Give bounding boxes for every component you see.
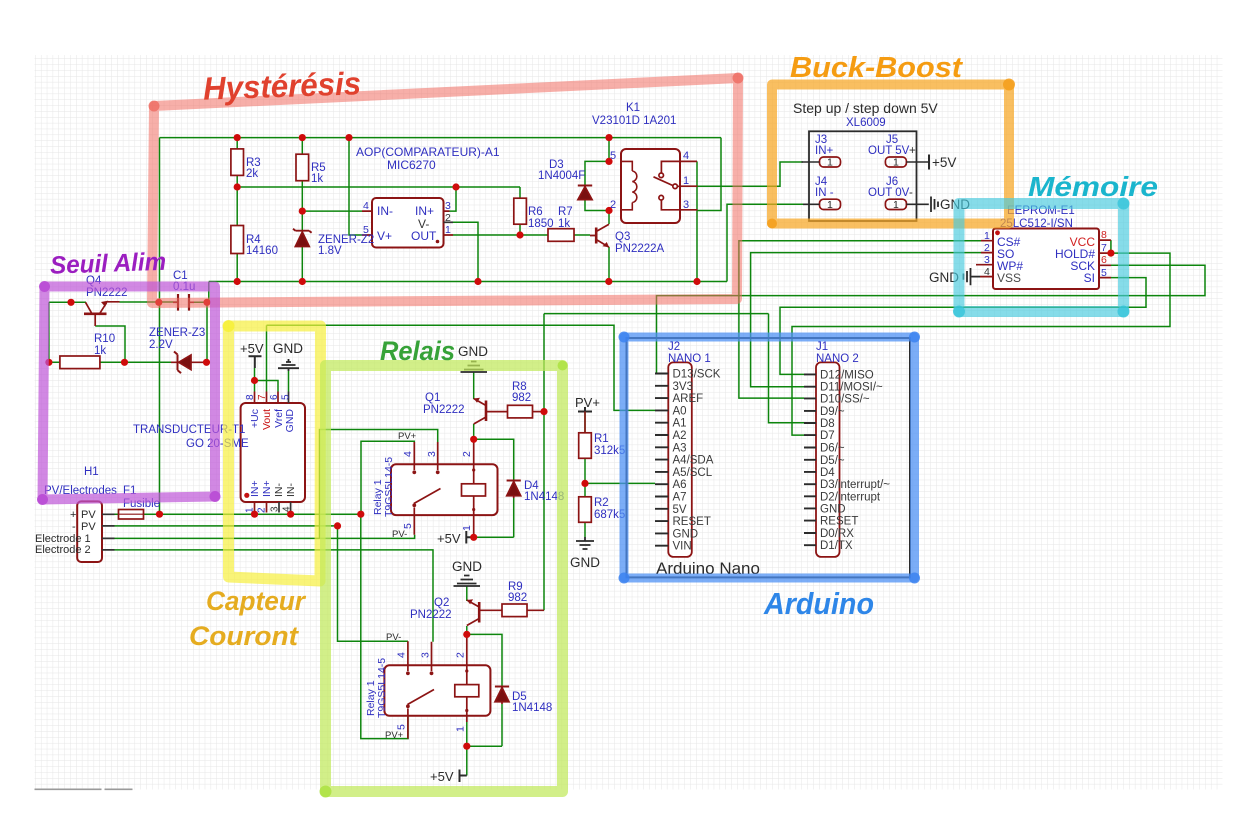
wire: AOP pin3 IN+ up to feedback rail: [450, 187, 457, 211]
svg-text:1: 1: [445, 224, 451, 236]
svg-text:4: 4: [402, 451, 414, 457]
svg-text:1.8V: 1.8V: [318, 245, 342, 257]
label J3: [815, 134, 834, 157]
label eeprom pin numbers: [984, 229, 1107, 279]
node seuil Q4 base: [67, 299, 74, 306]
label J2 NANO 1: [668, 341, 711, 365]
fuse F1: [119, 510, 144, 520]
wire: D8 drop to nano2: [769, 314, 805, 423]
label relay RL1 pin numbers: [402, 451, 473, 531]
wire: SCK line to D13: [655, 265, 1205, 373]
svg-text:+5V: +5V: [240, 341, 264, 356]
node Q2 collector: [463, 631, 470, 638]
svg-text:D3/interrupt/~: D3/interrupt/~: [820, 479, 890, 491]
svg-text:2.2V: 2.2V: [149, 339, 173, 351]
resistor R5: [296, 154, 309, 181]
node bottom rail Z2: [299, 278, 306, 285]
svg-text:R6: R6: [528, 206, 543, 218]
wire: hysteresis top rail: [160, 137, 722, 139]
current sensor U2 box: [241, 392, 305, 515]
label nano2 pin names: [820, 369, 890, 552]
label AOP comparator: [356, 145, 500, 172]
resistor R8: [508, 405, 545, 418]
diode D3: [578, 186, 592, 200]
svg-text:2: 2: [984, 242, 990, 254]
wire: seuil top wire right of C1: [190, 301, 207, 303]
svg-text:OUT 0V: OUT 0V: [868, 187, 910, 199]
svg-text:NANO 1: NANO 1: [668, 353, 711, 365]
svg-text:Q3: Q3: [615, 231, 630, 243]
svg-text:IN+: IN+: [415, 204, 434, 218]
svg-text:V-: V-: [418, 217, 429, 231]
node R8 right: [540, 408, 547, 415]
svg-text:5: 5: [1101, 267, 1107, 279]
node bottom rail K1 pin4: [693, 278, 700, 285]
label J1 NANO 2: [816, 341, 859, 365]
power symbol +5V relay1: [466, 531, 473, 544]
wire: D4 anode down: [513, 498, 515, 537]
svg-text:Hystérésis: Hystérésis: [202, 65, 361, 106]
svg-text:4: 4: [396, 652, 408, 658]
svg-text:D10/SS/~: D10/SS/~: [820, 393, 870, 405]
label +5V capteur: [240, 341, 264, 356]
label GND below R2: [570, 555, 600, 570]
svg-text:A7: A7: [673, 492, 687, 504]
zener diode Z2: [293, 229, 312, 247]
annotation highlight box arduino: [624, 337, 915, 578]
label R9: [508, 581, 527, 604]
svg-text:7: 7: [257, 394, 268, 400]
svg-text:A0: A0: [673, 405, 687, 417]
svg-text:ZENER-Z3: ZENER-Z3: [149, 327, 205, 339]
svg-text:1: 1: [893, 157, 899, 169]
wire: zener Z3 to C1 column node: [190, 361, 207, 363]
svg-text:+5V: +5V: [437, 531, 461, 546]
wire: D8 net horizontal: [544, 313, 769, 315]
svg-text:3: 3: [683, 199, 689, 211]
power symbol +5V at J5: [928, 155, 930, 170]
label J4: [815, 176, 834, 199]
svg-text:Capteur: Capteur: [206, 586, 306, 616]
node top rail K1: [605, 134, 612, 141]
label Q4: [86, 275, 128, 299]
svg-text:2: 2: [461, 451, 473, 457]
svg-text:4: 4: [683, 150, 689, 162]
wire: D5 anode down: [501, 704, 503, 746]
svg-text:6: 6: [269, 394, 280, 400]
label R2: [594, 497, 625, 521]
relay RL2: [384, 634, 490, 738]
node feedback R3: [234, 183, 241, 190]
wire: R10 zener row: [49, 361, 171, 363]
svg-text:A1: A1: [673, 418, 687, 430]
power symbol PV+ at R1: [578, 407, 592, 412]
node feedback pin3: [452, 183, 459, 190]
svg-text:2k: 2k: [246, 168, 258, 180]
svg-text:RESET: RESET: [820, 516, 858, 528]
svg-text:IN+: IN+: [261, 480, 273, 497]
svg-text:J2: J2: [668, 341, 680, 353]
node top rail R3: [234, 134, 241, 141]
wire: K1 pin4 drop to bottom rail: [696, 161, 698, 281]
svg-text:XL6009: XL6009: [846, 117, 886, 129]
svg-text:D4: D4: [820, 467, 835, 479]
svg-text:PV-: PV-: [392, 529, 407, 540]
node bottom rail R4: [234, 278, 241, 285]
label capteur pins: [249, 409, 297, 497]
label J5: [868, 134, 916, 157]
node PV+ branch: [357, 511, 364, 518]
svg-text:1: 1: [984, 230, 990, 242]
svg-text:A6: A6: [673, 479, 687, 491]
wire: AOP pin2 V- down to bottom rail: [453, 222, 478, 281]
label R10: [94, 333, 115, 357]
node seuil trunk crossing: [155, 299, 162, 306]
power symbol PV+ at R1 stem: [584, 412, 586, 433]
svg-text:+Uc: +Uc: [249, 409, 261, 428]
capacitor C1: [173, 294, 194, 311]
annotation highlight box relais: [326, 366, 563, 792]
svg-text:GND: GND: [284, 409, 296, 433]
svg-text:5: 5: [363, 224, 369, 236]
node seuil C1 right: [203, 299, 210, 306]
ground symbol GND above Q1: [461, 362, 488, 373]
label AOP pin V-: [418, 217, 429, 231]
svg-text:D7: D7: [820, 430, 835, 442]
connector J4 pin box: [820, 199, 841, 209]
wire: electrode1 line to relay1 pin5: [115, 535, 415, 539]
label J6: [868, 176, 913, 199]
label PV+ at R1: [575, 395, 600, 410]
wire: seuil top wire left of C1: [49, 301, 177, 303]
svg-text:SI: SI: [1084, 271, 1095, 285]
svg-text:Step up / step down 5V: Step up / step down 5V: [793, 100, 938, 116]
node capteur pin4: [287, 511, 294, 518]
svg-text:Vout: Vout: [261, 409, 273, 430]
svg-text:1: 1: [827, 199, 833, 211]
annotation corner dots: [149, 73, 744, 112]
resistor R3: [231, 149, 244, 176]
svg-text:D8: D8: [820, 418, 835, 430]
transistor Q1: [474, 398, 508, 424]
wire: Vout riser: [266, 325, 268, 391]
svg-text:A4/SDA: A4/SDA: [673, 455, 714, 467]
svg-text:PV+: PV+: [575, 395, 600, 410]
svg-text:A2: A2: [673, 430, 687, 442]
label C1: [173, 270, 195, 293]
label relay RL2: [365, 658, 388, 718]
svg-text:GND: GND: [673, 528, 699, 540]
transistor Q4: [84, 301, 120, 326]
svg-text:1: 1: [893, 199, 899, 211]
node IN- R5: [299, 208, 306, 215]
label Q2: [410, 597, 452, 621]
svg-text:IN-: IN-: [377, 204, 393, 218]
wire: A6 sense wire: [585, 482, 655, 484]
label H1 pins: [35, 509, 96, 556]
label H1: [44, 466, 117, 497]
svg-text:2: 2: [445, 212, 451, 224]
ground symbol GND below R2: [576, 537, 594, 549]
label relay RL2 pin numbers: [396, 652, 467, 732]
wire: Vout to Arduino A0: [267, 325, 656, 410]
svg-text:982: 982: [508, 592, 527, 604]
svg-text:5: 5: [281, 394, 292, 400]
annotation highlight box seuil alim: [43, 287, 216, 500]
svg-text:1: 1: [827, 157, 833, 169]
resistor R7: [548, 229, 574, 242]
wire: relay2 +5V rail: [467, 745, 502, 747]
diode D4: [507, 481, 521, 499]
label R4 value: [246, 234, 278, 257]
diode D5: [495, 687, 509, 705]
svg-text:+: +: [70, 509, 76, 521]
svg-text:R7: R7: [558, 206, 573, 218]
buck-boost pin leads: [801, 162, 928, 204]
annotation highlight box capteur: [229, 326, 321, 581]
svg-text:D0/RX: D0/RX: [820, 528, 854, 540]
wire: D3 bottom link to K1 pin2: [585, 200, 609, 211]
svg-text:1k: 1k: [94, 345, 106, 357]
label GND capteur: [273, 341, 303, 356]
node OUT R6: [516, 231, 523, 238]
label K1: [592, 102, 676, 127]
svg-text:PN2222: PN2222: [423, 404, 465, 416]
label R8: [512, 381, 531, 404]
node zener Z3 right: [203, 359, 210, 366]
power symbol +5V capteur: [249, 356, 262, 368]
svg-text:GND: GND: [820, 503, 846, 515]
nano2 pin stubs: [804, 374, 816, 545]
label +5V buck: [932, 155, 956, 170]
label GND above Q2: [452, 559, 482, 574]
svg-text:AOP(COMPARATEUR)-A1: AOP(COMPARATEUR)-A1: [356, 145, 500, 159]
wire: R6 column: [519, 187, 521, 235]
transistor Q3: [590, 224, 609, 247]
label capteur pin numbers: [245, 394, 293, 513]
wire: seuil left vertical: [48, 302, 50, 362]
wire: Q3 collector to node: [608, 211, 610, 225]
label K1 pin numbers: [610, 150, 689, 211]
svg-text:D11/MOSI/~: D11/MOSI/~: [820, 382, 883, 394]
label +5V relay1: [437, 531, 461, 546]
svg-text:Buck-Boost: Buck-Boost: [790, 52, 963, 84]
resistor R4: [231, 226, 244, 254]
svg-text:H1: H1: [84, 466, 99, 478]
svg-text:T9GS5L14-5: T9GS5L14-5: [383, 457, 395, 517]
svg-text:Q2: Q2: [434, 597, 449, 609]
wire: Q1 collector node column: [473, 424, 475, 442]
svg-text:PN2222: PN2222: [410, 609, 452, 621]
node relay2 +5V: [463, 743, 470, 750]
wire: relay1 pin4 PV+ link: [361, 441, 414, 514]
label AOP pin numbers: [363, 200, 451, 236]
svg-text:V23101D 1A201: V23101D 1A201: [592, 115, 676, 127]
label F1: [123, 485, 160, 510]
svg-text:1: 1: [455, 726, 467, 732]
label R5 value: [311, 162, 326, 185]
svg-text:2: 2: [257, 507, 268, 513]
svg-text:J1: J1: [816, 341, 828, 353]
wire: fuse to PV+ trunk: [115, 513, 160, 515]
label step up title: [793, 100, 938, 116]
connector H1: [77, 501, 114, 562]
svg-text:T9GS5L14-5: T9GS5L14-5: [376, 658, 388, 718]
label Q3: [615, 231, 665, 255]
wire: relay1 coil node to D4: [474, 439, 514, 480]
svg-text:982: 982: [512, 392, 531, 404]
op-amp U1 MIC6270 comparator box: [362, 198, 453, 248]
node top rail V+: [345, 134, 352, 141]
label AOP pins: [377, 204, 437, 243]
svg-text:D12/MISO: D12/MISO: [820, 369, 874, 381]
svg-text:Mémoire: Mémoire: [1028, 171, 1158, 202]
wire: Q4 base route to zener row: [95, 326, 125, 362]
svg-text:A5/SCL: A5/SCL: [673, 467, 713, 479]
wire: capteur GND stem: [288, 371, 290, 392]
wire: D3 top link to K1 pin5: [585, 161, 609, 185]
power symbol +5V relay2: [460, 770, 467, 783]
ground symbol GND capteur: [278, 359, 299, 371]
svg-text:PV: PV: [81, 521, 96, 533]
svg-text:PV+: PV+: [398, 431, 417, 442]
wire: GND2 stem to Q2 emitter: [466, 586, 468, 601]
node fuse output: [156, 511, 163, 518]
svg-text:IN+: IN+: [815, 145, 834, 157]
label nano1 pin names: [673, 369, 721, 553]
label R1: [594, 433, 625, 457]
svg-text:3: 3: [984, 254, 990, 266]
svg-text:1k: 1k: [558, 218, 570, 230]
connector J3 pin box: [820, 157, 841, 167]
node R1 R2 divider: [581, 480, 588, 487]
relay RL1: [391, 442, 498, 537]
wire: SI line to D12: [780, 278, 1146, 375]
scrollbar marks bottom: [35, 788, 133, 790]
label PV+ PV- relay1: [392, 431, 417, 540]
wire: R1 R2 divider column: [584, 412, 586, 538]
svg-text:VIN: VIN: [673, 541, 692, 553]
svg-text:GND: GND: [452, 559, 482, 574]
wire: PV+ line to relays: [160, 513, 361, 515]
label J3-J6 pin ones: [827, 157, 899, 212]
node relay1 +5V: [470, 534, 477, 541]
wire: relay2 coil node to D5: [467, 634, 502, 686]
node capteur +5V: [251, 377, 258, 384]
svg-text:PV+: PV+: [385, 730, 404, 741]
label arduino nano: [656, 559, 760, 578]
svg-text:NANO 2: NANO 2: [816, 353, 859, 365]
svg-text:6: 6: [1101, 254, 1107, 266]
svg-text:7: 7: [1101, 242, 1107, 254]
svg-text:Couront: Couront: [189, 621, 299, 651]
svg-text:GND: GND: [570, 555, 600, 570]
annotation highlight box hysteresis: [152, 78, 738, 303]
svg-text:4: 4: [363, 200, 369, 212]
svg-text:OUT 5V: OUT 5V: [868, 145, 910, 157]
wire: relay1 +5V rail: [474, 536, 514, 538]
svg-text:1k: 1k: [311, 173, 323, 185]
node R10 right: [121, 359, 128, 366]
wire: capteur +5V node: [254, 368, 256, 392]
svg-text:AREF: AREF: [673, 393, 704, 405]
annotation highlight box buck-boost: [772, 85, 1009, 224]
svg-text:D1/TX: D1/TX: [820, 540, 853, 552]
svg-text:VSS: VSS: [997, 271, 1021, 285]
svg-text:PV: PV: [81, 509, 96, 521]
ground symbol at eeprom VSS: [964, 268, 981, 285]
svg-text:Electrode 2: Electrode 2: [35, 544, 91, 556]
svg-text:PN2222A: PN2222A: [615, 243, 665, 255]
node bottom rail V-: [474, 278, 481, 285]
label GND eeprom: [929, 270, 959, 285]
svg-text:GND: GND: [273, 341, 303, 356]
nano1 header J2 box: [668, 362, 692, 557]
wire: PV+ trunk vertical (rail to fuse node): [159, 138, 161, 515]
wire: AOP OUT to R7: [453, 234, 548, 236]
svg-text:-: -: [909, 187, 913, 199]
wire: K1 pin1 to J3 IN+: [698, 162, 804, 186]
svg-text:Relais: Relais: [380, 336, 455, 366]
svg-text:OUT: OUT: [411, 229, 437, 243]
svg-text:2: 2: [455, 652, 467, 658]
wire: GND1 stem to Q1 emitter: [473, 372, 475, 399]
svg-text:D2/interrupt: D2/interrupt: [820, 491, 881, 503]
svg-text:R10: R10: [94, 333, 115, 345]
wire: SO line to D11: [751, 253, 981, 387]
label D5: [512, 691, 552, 714]
svg-text:D9/~: D9/~: [820, 406, 845, 418]
label PV- PV+ relay2: [385, 632, 404, 741]
label zener Z2: [318, 234, 374, 257]
svg-text:3: 3: [426, 451, 438, 457]
svg-text:+5V: +5V: [932, 155, 956, 170]
wire: J4 IN- down to bottom rail: [727, 204, 803, 281]
node bottom rail Q3: [605, 278, 612, 285]
svg-text:MIC6270: MIC6270: [387, 158, 436, 172]
wire: IN- wire R5 to AOP pin4: [302, 210, 362, 212]
annotation highlight box memoire: [959, 204, 1124, 312]
svg-text:PV-: PV-: [386, 632, 401, 643]
wire: relay2 pin1 drop: [466, 716, 468, 746]
svg-text:Q1: Q1: [425, 392, 440, 404]
wire: relay2 +5V stem: [466, 746, 468, 775]
resistor R6: [514, 198, 527, 224]
node capteur pin1: [251, 511, 258, 518]
label relay RL1: [372, 457, 395, 517]
wire: R3/R4 column: [236, 138, 238, 282]
relay K1: [621, 149, 698, 223]
wire: R5/zener Z2 column: [301, 138, 303, 282]
svg-text:K1: K1: [626, 102, 640, 114]
svg-text:D6/~: D6/~: [820, 443, 845, 455]
svg-text:8: 8: [1101, 229, 1107, 241]
buck-boost module outline: [809, 131, 917, 221]
wire: VCC/HOLD line to D7: [792, 253, 1170, 435]
wire: R7 to Q3 base: [574, 234, 590, 236]
node PV- branch: [334, 522, 341, 529]
svg-text:D13/SCK: D13/SCK: [673, 369, 721, 381]
label R3 value: [246, 157, 261, 180]
svg-text:Seuil Alim: Seuil Alim: [50, 248, 167, 280]
svg-text:R1: R1: [594, 433, 609, 445]
svg-text:5V: 5V: [673, 504, 687, 516]
connector J5 pin box: [885, 157, 906, 167]
transistor Q2: [467, 599, 502, 625]
resistor R9: [502, 604, 544, 617]
svg-text:IN-: IN-: [273, 483, 285, 498]
svg-text:1N4148: 1N4148: [512, 702, 552, 714]
